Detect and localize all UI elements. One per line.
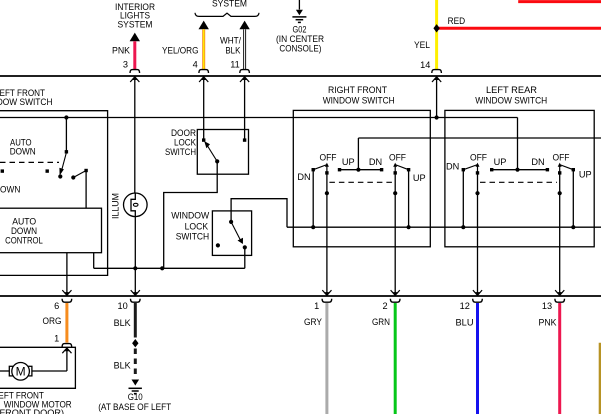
- wire PNK pin 13: [558, 303, 561, 414]
- connector bump motor pin 1: [62, 344, 72, 347]
- arrow down at G10: [132, 380, 140, 386]
- dashed link (left rear): [480, 181, 557, 183]
- contact door lock left: [202, 138, 205, 141]
- arrow up at pin 3: [130, 77, 139, 82]
- wire pin 3 down to lamp: [134, 77, 136, 193]
- switch arm auto-down: [61, 153, 66, 173]
- wire UP contact to ground (right front): [408, 170, 410, 228]
- svg-text:10: 10: [117, 301, 127, 311]
- wire: switch ground bus: [287, 226, 601, 228]
- svg-text:PNK: PNK: [112, 45, 131, 55]
- svg-text:SWITCH: SWITCH: [165, 147, 196, 157]
- wire control to pin 6: [66, 253, 68, 296]
- svg-text:13: 13: [542, 301, 552, 311]
- arrow to interior lights system: [130, 33, 140, 42]
- wire DN contact to ground (right front): [312, 170, 314, 228]
- arrow up at pin 4: [199, 77, 208, 82]
- wire rail down to auto-down switch: [65, 118, 67, 152]
- svg-text:DOWN: DOWN: [10, 147, 36, 157]
- contact door lock right: [243, 138, 246, 141]
- motor M1: [9, 366, 13, 376]
- svg-text:LOCK: LOCK: [174, 138, 197, 148]
- connector bump pin 3: [130, 70, 140, 73]
- svg-text:UP: UP: [579, 170, 592, 180]
- contact auto-down top: [65, 150, 68, 153]
- svg-text:SWITCH: SWITCH: [176, 232, 210, 242]
- svg-text:ORG: ORG: [43, 316, 62, 326]
- wire left pivot to connector (left rear): [477, 174, 479, 295]
- svg-text:BLK: BLK: [114, 360, 132, 370]
- connector pin 6: [62, 299, 72, 302]
- connector pin 10: [131, 299, 141, 302]
- connector bump pin 11: [240, 70, 250, 73]
- connector pin 12: [473, 299, 483, 302]
- svg-text:OFF: OFF: [320, 152, 337, 162]
- contact mid: [46, 169, 49, 172]
- connector pin 13: [555, 299, 565, 302]
- wire YEL/ORG (pin 4): [202, 29, 205, 69]
- svg-text:RIGHT FRONT: RIGHT FRONT: [328, 85, 387, 95]
- connector pin 1: [322, 299, 332, 302]
- moving contact 2: [71, 175, 75, 179]
- svg-text:DN: DN: [531, 157, 544, 167]
- wire right pivot to connector (left rear): [559, 174, 561, 295]
- splice junction on YEL: [433, 24, 439, 32]
- wire RED (top right): [518, 0, 601, 3]
- brace: [195, 13, 259, 17]
- connector pin 2: [390, 299, 400, 302]
- svg-text:BLK: BLK: [114, 318, 132, 328]
- contact DN (left rear): [462, 168, 465, 171]
- arrow down right pivot (left rear): [555, 290, 564, 295]
- junction DN/ground (left rear): [461, 225, 465, 229]
- switch pivot left (left rear): [463, 165, 477, 170]
- wire GRN pin 2: [394, 303, 397, 414]
- wire RED (to right edge): [438, 27, 601, 30]
- contact UP (left rear): [572, 168, 575, 171]
- box WINDOW LOCK SWITCH: [212, 211, 251, 256]
- svg-text:WHT/: WHT/: [220, 36, 241, 46]
- svg-text:BLU: BLU: [456, 317, 474, 327]
- dashed line auto-down: [0, 161, 59, 163]
- wire ORG pin 6 to motor: [65, 303, 68, 343]
- contact door lock common: [215, 159, 219, 163]
- wire motor: [66, 348, 68, 371]
- arrow up at pin 14: [432, 77, 441, 82]
- svg-text:GRY: GRY: [304, 317, 322, 327]
- svg-text:SYSTEM: SYSTEM: [212, 0, 247, 8]
- wire PNK (pin 3): [133, 41, 136, 69]
- svg-text:LOCK: LOCK: [185, 222, 209, 232]
- junction center row (left rear): [515, 168, 519, 172]
- box DOOR LOCK SWITCH: [197, 130, 248, 175]
- wire: power rail from pin 14: [0, 117, 518, 119]
- svg-text:GRN: GRN: [372, 317, 390, 327]
- box LEFT REAR WINDOW SWITCH: [445, 110, 594, 246]
- switch pivot right (right front): [395, 165, 408, 170]
- arrow to system (pin 4): [199, 21, 209, 30]
- box LEFT FRONT WINDOW MOTOR: [0, 347, 75, 388]
- svg-text:3: 3: [123, 59, 128, 69]
- junction lamp wire / ground rail: [133, 266, 137, 270]
- contact left edge: [1, 169, 4, 172]
- arrow up into motor box: [62, 348, 71, 353]
- svg-text:OFF: OFF: [470, 152, 487, 162]
- junction on left pivot wire (left rear): [475, 191, 479, 195]
- svg-text:UP: UP: [413, 173, 426, 183]
- junction UP/ground (right front): [407, 225, 411, 229]
- arrow down right pivot (right front): [391, 290, 400, 295]
- arrow down left pivot (right front): [322, 290, 331, 295]
- ground symbol G10: [129, 387, 142, 389]
- wire: window feed line: [358, 137, 601, 139]
- wire rail down to left rear center: [517, 118, 519, 170]
- wire pin 4 down to door lock: [203, 77, 205, 140]
- svg-text:YEL: YEL: [414, 40, 430, 50]
- svg-text:DN: DN: [369, 157, 382, 167]
- wire UP contact to ground (left rear): [572, 170, 574, 228]
- center row contacts (right front): [338, 168, 341, 171]
- svg-text:CONSOLE): CONSOLE): [279, 43, 321, 53]
- wire YEL (pin 14): [435, 0, 438, 69]
- lamp ILLUM: [124, 193, 148, 217]
- svg-text:2: 2: [382, 301, 387, 311]
- junction on right pivot wire (right front): [393, 191, 397, 195]
- svg-text:DN: DN: [446, 162, 459, 172]
- junction UP/ground (left rear): [571, 225, 575, 229]
- junction DN/ground (right front): [311, 225, 315, 229]
- svg-text:4: 4: [193, 59, 198, 69]
- switch pivot left (right front): [313, 165, 327, 170]
- center row contacts (left rear): [490, 168, 493, 171]
- svg-text:WINDOW SWITCH: WINDOW SWITCH: [0, 97, 53, 107]
- svg-text:LEFT REAR: LEFT REAR: [486, 85, 537, 95]
- svg-text:M: M: [16, 365, 26, 379]
- junction doorlock wire / ground rail: [160, 266, 164, 270]
- arrow down at pin 6: [62, 290, 71, 295]
- svg-text:11: 11: [230, 59, 240, 69]
- svg-text:14: 14: [420, 60, 430, 70]
- contact window lock left: [216, 243, 220, 247]
- arrow down at pin 10: [131, 290, 140, 295]
- wire door lock to ground rail: [164, 161, 218, 268]
- wire center feed right front: [357, 138, 359, 170]
- contact UP (right front): [407, 168, 410, 171]
- switch arm door lock: [206, 144, 217, 162]
- contact window lock bottom: [243, 245, 247, 249]
- wire BLK dashed to ground: [134, 349, 137, 379]
- wire left pivot to connector (right front): [326, 174, 328, 295]
- svg-text:WINDOW SWITCH: WINDOW SWITCH: [475, 96, 547, 106]
- svg-text:WINDOW: WINDOW: [171, 210, 209, 220]
- svg-text:RED: RED: [448, 16, 466, 26]
- moving contact 1: [58, 174, 62, 178]
- wire BLU pin 12: [476, 303, 479, 414]
- contact window lock top: [229, 220, 233, 224]
- svg-text:G02: G02: [293, 24, 307, 34]
- switch pivot right (left rear): [560, 165, 574, 170]
- svg-text:OFF: OFF: [389, 152, 406, 162]
- junction pin14/rail: [435, 115, 439, 119]
- svg-text:1: 1: [54, 334, 59, 344]
- wire: bottom bus (connector boundary): [0, 295, 601, 297]
- arrow down at G02: [296, 10, 303, 16]
- svg-text:UP: UP: [494, 157, 507, 167]
- svg-text:SYSTEM: SYSTEM: [118, 20, 153, 30]
- switch arm window lock: [231, 222, 240, 240]
- wire GRY pin 1: [325, 303, 328, 414]
- wire DK YEL (bottom right): [599, 343, 601, 414]
- wire window lock output: [244, 247, 246, 268]
- svg-text:DOWN: DOWN: [0, 184, 20, 194]
- svg-text:12: 12: [460, 301, 470, 311]
- svg-text:PNK: PNK: [539, 317, 558, 327]
- svg-text:AUTO: AUTO: [12, 216, 36, 226]
- ground symbol G02: [292, 16, 306, 18]
- svg-text:DOOR: DOOR: [171, 128, 196, 138]
- junction center row (right front): [356, 168, 360, 172]
- box LEFT FRONT WINDOW SWITCH: [0, 111, 108, 276]
- switch arm 2: [73, 171, 86, 178]
- wire right pivot to connector (right front): [394, 174, 396, 295]
- wire pin 14 down to rail: [436, 77, 438, 118]
- wire control to ground rail: [93, 253, 95, 269]
- svg-text:UP: UP: [342, 157, 355, 167]
- wire DN contact to ground (left rear): [462, 170, 464, 228]
- svg-text:G10: G10: [128, 392, 143, 402]
- svg-text:(IN LEFT FRONT DOOR): (IN LEFT FRONT DOOR): [0, 408, 64, 414]
- contact to control: [84, 169, 87, 172]
- junction on left pivot wire (right front): [325, 191, 329, 195]
- svg-text:1: 1: [314, 301, 319, 311]
- dashed link (right front): [329, 181, 392, 183]
- svg-text:ILLUM: ILLUM: [111, 193, 121, 219]
- wire contact down to control box: [85, 171, 87, 209]
- wire: top bus (connector boundary): [0, 75, 601, 77]
- svg-text:OFF: OFF: [553, 152, 570, 162]
- box RIGHT FRONT WINDOW SWITCH: [293, 110, 430, 246]
- arrow to system (pin 11): [239, 21, 249, 30]
- wire to ground G02: [298, 0, 300, 10]
- svg-text:CONTROL: CONTROL: [5, 235, 43, 245]
- wire window lock to switch ground bus: [231, 199, 287, 228]
- junction rail/auto-down: [64, 115, 68, 119]
- wire BLK pin 10: [134, 303, 137, 338]
- wire lamp down to pin 10: [134, 217, 136, 296]
- svg-text:(AT BASE OF LEFT: (AT BASE OF LEFT: [98, 402, 171, 412]
- svg-text:DN: DN: [297, 172, 310, 182]
- connector bump pin 4: [199, 70, 209, 73]
- splice on BLK: [132, 339, 138, 347]
- svg-text:YEL/ORG: YEL/ORG: [162, 45, 199, 55]
- connector bump pin 14: [432, 70, 442, 73]
- wire pin 11 down to door lock: [244, 77, 246, 140]
- wire WHT/BLK (pin 11): [243, 29, 246, 69]
- box AUTO DOWN CONTROL: [0, 208, 102, 253]
- svg-text:BLK: BLK: [225, 45, 241, 55]
- svg-text:WINDOW SWITCH: WINDOW SWITCH: [323, 96, 395, 106]
- arrow down left pivot (left rear): [473, 290, 482, 295]
- contact DN (right front): [312, 168, 315, 171]
- arrow up at pin 11: [240, 77, 249, 82]
- junction on right pivot wire (left rear): [558, 191, 562, 195]
- svg-text:6: 6: [54, 301, 59, 311]
